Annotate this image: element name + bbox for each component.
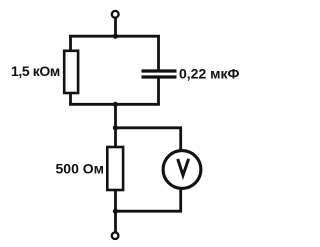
wire voltmeter lower lead [179,188,182,213]
wire capacitor upper lead [157,35,160,71]
svg-text:0,22 мкФ: 0,22 мкФ [179,66,240,82]
wire top terminal lead [114,19,117,38]
resistor R2 500 Om body [107,147,123,190]
wire voltmeter top rail [114,126,182,129]
capacitor C1 0,22 mkF [142,71,177,77]
node junction mid RC [113,102,118,107]
terminal top [112,11,119,18]
node junction top [113,34,118,39]
wire R1 lower lead [69,92,72,106]
wire voltmeter upper lead [179,127,182,153]
wire bottom terminal lead [114,210,117,232]
wire center vertical [114,103,117,148]
svg-text:500 Ом: 500 Ом [56,161,105,177]
wire R2 lower lead [114,189,117,213]
resistor R1 1,5 kOm body [64,51,78,93]
voltmeter V letter [178,159,189,175]
bottom rail of RC section [69,103,160,106]
terminal bottom [112,232,119,239]
voltmeter U1 circle [163,151,201,189]
node junction bottom [113,209,118,214]
wire R1 upper lead [69,35,72,52]
svg-text:1,5 кОм: 1,5 кОм [11,63,60,79]
node junction voltmeter tap [113,125,118,130]
wire capacitor lower lead [157,78,160,106]
bottom rail wire [114,210,182,213]
top rail wire [69,35,160,38]
